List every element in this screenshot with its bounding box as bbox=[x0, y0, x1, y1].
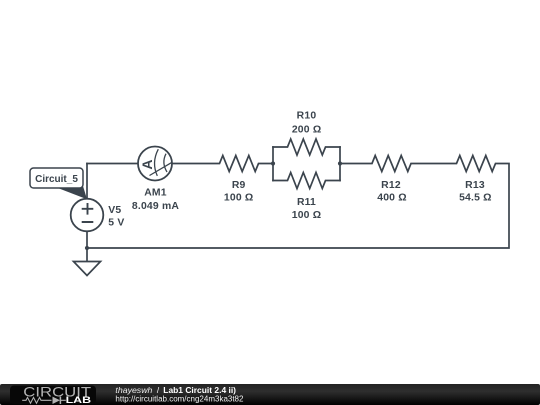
svg-text:AM1: AM1 bbox=[144, 188, 167, 199]
svg-text:8.049 mA: 8.049 mA bbox=[132, 201, 180, 212]
svg-text:R13: R13 bbox=[465, 180, 485, 191]
svg-text:100 Ω: 100 Ω bbox=[292, 210, 322, 221]
svg-text:54.5 Ω: 54.5 Ω bbox=[459, 193, 492, 204]
svg-text:200 Ω: 200 Ω bbox=[292, 125, 322, 136]
svg-text:A: A bbox=[139, 159, 155, 169]
svg-text:100 Ω: 100 Ω bbox=[224, 193, 254, 204]
svg-text:http://circuitlab.com/cng24m3k: http://circuitlab.com/cng24m3ka3t82 bbox=[115, 394, 244, 403]
svg-text:V5: V5 bbox=[108, 205, 121, 216]
svg-text:400 Ω: 400 Ω bbox=[377, 193, 407, 204]
svg-text:R11: R11 bbox=[297, 197, 316, 208]
svg-text:R12: R12 bbox=[381, 180, 401, 191]
svg-text:LAB: LAB bbox=[66, 395, 92, 405]
svg-text:R10: R10 bbox=[297, 111, 317, 122]
svg-text:R9: R9 bbox=[232, 180, 246, 191]
svg-text:5 V: 5 V bbox=[108, 218, 124, 229]
svg-text:Circuit_5: Circuit_5 bbox=[35, 174, 78, 185]
